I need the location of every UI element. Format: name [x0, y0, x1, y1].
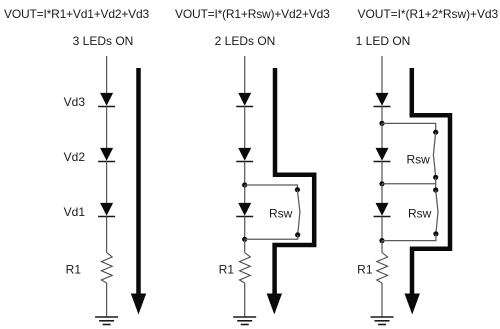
svg-text:VOUT=I*R1+Vd1+Vd2+Vd3: VOUT=I*R1+Vd1+Vd2+Vd3: [4, 7, 149, 21]
wire top feed (left string): [106, 56, 108, 93]
current path arrow (left, straight through all three LEDs): [131, 68, 146, 315]
wire R1 to ground (left): [106, 283, 108, 317]
wire D2 to node A (middle): [244, 162, 246, 186]
wire stub SW1 bottom to SW2 top (right): [435, 177, 437, 190]
node B junction dot (middle, R1 top): [242, 237, 247, 242]
LED D3 (right): [374, 93, 391, 107]
svg-text:Vd3: Vd3: [64, 95, 86, 109]
wire switch bottom to node B (middle): [245, 235, 298, 239]
svg-text:Rsw: Rsw: [408, 207, 432, 221]
svg-text:3 LEDs ON: 3 LEDs ON: [73, 34, 134, 48]
LED D2 (middle): [236, 148, 253, 162]
wire node A to switch SW1 top (right): [382, 123, 436, 132]
wire switch SW2 bottom to node C (right): [382, 234, 436, 241]
svg-text:2 LEDs ON: 2 LEDs ON: [215, 34, 276, 48]
wire node B to switch junction stub (right): [382, 183, 436, 185]
LED D3 (middle): [236, 93, 253, 107]
LED D2 (Vd2): [98, 148, 115, 162]
wire D2 cathode to D1 anode: [106, 162, 108, 204]
wire node A to D1 anode (middle): [244, 185, 246, 203]
wire R1 to ground (right): [381, 283, 383, 317]
node A junction dot (middle, D2 cathode): [242, 182, 247, 187]
resistor R1 (middle): [240, 253, 251, 284]
wire D1 cathode to R1: [106, 217, 108, 253]
wire D3 to D2 (middle): [244, 107, 246, 149]
svg-text:1 LED ON: 1 LED ON: [356, 34, 411, 48]
node C junction dot (right, R1 top): [379, 238, 384, 243]
svg-text:Rsw: Rsw: [269, 207, 293, 221]
resistor R1 (right): [377, 253, 388, 284]
wire R1 to ground (middle): [244, 283, 246, 317]
current path arrow (middle, jogs around bypassed D1): [267, 68, 315, 315]
switch SW2 (Rsw bypass of D1, right): [433, 187, 438, 236]
svg-text:Vd2: Vd2: [64, 150, 86, 164]
ground (right): [371, 317, 394, 325]
wire D3 cathode to node A (right): [381, 107, 383, 124]
svg-text:Vd1: Vd1: [64, 205, 86, 219]
wire D2 cathode to node B (right): [381, 162, 383, 184]
node B junction dot (right, between switches): [379, 181, 384, 186]
LED D2 (right, bypassed): [374, 148, 391, 162]
wire D1 cathode to node C (right): [381, 217, 383, 241]
wire node A to D2 anode (right): [381, 123, 383, 148]
resistor R1 (left): [101, 253, 112, 284]
svg-text:R1: R1: [66, 263, 82, 277]
switch SW1 (Rsw bypass of D2, right): [433, 130, 438, 180]
wire node A to switch top (middle): [245, 185, 298, 190]
wire node C to R1 (right): [381, 241, 383, 253]
ground (middle): [233, 317, 256, 325]
svg-text:R1: R1: [357, 263, 373, 277]
wire node B to R1 (middle): [244, 239, 246, 252]
svg-text:Rsw: Rsw: [407, 153, 431, 167]
current path arrow (right, jogs around bypassed D2 and D1): [405, 68, 451, 315]
LED D1 (Vd1): [98, 203, 115, 217]
svg-text:R1: R1: [219, 263, 235, 277]
LED D3 (Vd3): [98, 93, 115, 107]
wire D3 cathode to D2 anode: [106, 107, 108, 149]
wire top feed (right string): [381, 56, 383, 93]
ground (left): [95, 317, 118, 325]
wire D1 cathode to node B (middle): [244, 217, 246, 240]
LED D1 (middle, bypassed): [236, 203, 253, 217]
wire node B to D1 anode (right): [381, 184, 383, 203]
switch SW1 (Rsw bypass of D1, middle): [295, 187, 301, 237]
svg-text:VOUT=I*(R1+2*Rsw)+Vd3: VOUT=I*(R1+2*Rsw)+Vd3: [358, 7, 499, 21]
node A junction dot (right, D3 cathode): [379, 121, 384, 126]
svg-text:VOUT=I*(R1+Rsw)+Vd2+Vd3: VOUT=I*(R1+Rsw)+Vd2+Vd3: [175, 7, 330, 21]
LED D1 (right, bypassed): [374, 203, 391, 217]
wire top feed (middle string): [244, 56, 246, 93]
